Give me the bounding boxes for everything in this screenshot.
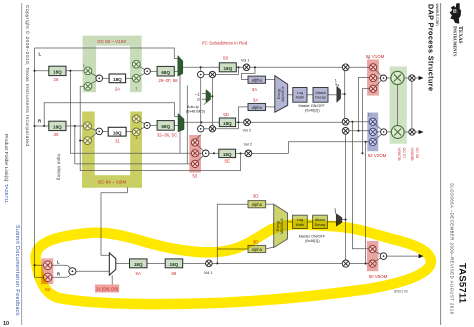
wire sub DRC tap vertical [217, 204, 248, 263]
wire sub feedback loop [80, 86, 240, 170]
block shade sub input mixer 53 [189, 135, 201, 173]
wire sub band line y141.8 [288, 142, 369, 154]
svg-text:Input Mixing: Input Mixing [56, 154, 61, 181]
wire xd to sum V2OM [375, 124, 381, 129]
wire sum4 to 68Q row2 [150, 124, 157, 126]
wire 18Q 5E to sub Vol2 [236, 152, 246, 154]
wire xD to sum2 [139, 73, 145, 76]
wire sub master mult out [349, 263, 369, 265]
node sub band tap [365, 141, 367, 143]
svg-text:21 (D8, D9): 21 (D8, D9) [96, 287, 119, 292]
wire -1/0 vertical [211, 78, 213, 126]
summer V2OM [381, 129, 387, 135]
svg-text:Vol 2: Vol 2 [244, 143, 252, 147]
wire x2d to sum4 [139, 127, 145, 130]
wire alpha2 to energy [266, 106, 275, 108]
block Log Math top [293, 88, 307, 103]
band GC 83 V1IM left bar [83, 46, 97, 92]
node mux1 out tap [200, 66, 202, 68]
svg-text:GC 58: GC 58 [415, 148, 419, 159]
multiplier V5OM bot [369, 260, 376, 267]
wire master mult ch1 to V1OM [349, 66, 370, 68]
wire interchannel to sub x top [196, 135, 200, 140]
multiplier sub master [342, 260, 349, 267]
wire xe to sum V2OM [376, 131, 380, 133]
multiplier xe V2OM [369, 128, 376, 135]
summer sub mixer [202, 150, 209, 157]
svg-text:MAX/MUX: MAX/MUX [281, 86, 285, 102]
svg-text:31: 31 [115, 138, 120, 143]
TI logo bug [450, 3, 461, 23]
wire Vol1 to master mult ch1 [250, 66, 343, 68]
output arrow ch2 [419, 130, 424, 134]
wire sub DRC gain vertical [345, 134, 347, 260]
energy max/mux sub [274, 204, 288, 247]
svg-text:1: 1 [136, 87, 138, 91]
block Log Math sub [293, 215, 308, 228]
wire alpha bot to energy 2 [266, 247, 274, 249]
wire sub x bot to sub sum [198, 156, 204, 161]
wire xC to sum2 [139, 66, 145, 69]
svg-text:18Q: 18Q [170, 262, 179, 267]
svg-text:58: 58 [223, 56, 228, 61]
wire sub mux out [342, 219, 346, 221]
svg-text:GC 57: GC 57 [402, 148, 406, 159]
svg-text:1: 1 [335, 79, 337, 83]
wire mux1 tap down [179, 74, 181, 153]
wire sub Vol1 out [212, 262, 342, 264]
wire R tap to sub mixer [75, 126, 192, 164]
node after 18Q 28 [69, 70, 71, 72]
wire log math 2 to attack decay 2 [307, 221, 312, 223]
node sub vol2 tap [239, 152, 241, 154]
multiplier xA V1IM [84, 67, 92, 75]
svg-text:B0521-06: B0521-06 [394, 290, 408, 294]
svg-text:68Q: 68Q [161, 70, 170, 75]
svg-text:alpha: alpha [252, 105, 263, 110]
band GC 83 V1IM header [83, 36, 142, 46]
svg-text:5A: 5A [136, 271, 141, 276]
svg-text:68Q: 68Q [161, 124, 170, 129]
wire mult ch1 aux to main [216, 67, 239, 74]
node after Vol1 [254, 66, 256, 68]
block shade 60 V5OM [367, 241, 378, 271]
wire 68Q to mux1 [174, 70, 178, 72]
svg-text:Vol 2: Vol 2 [243, 129, 251, 133]
wire xf to sum V2OM [375, 134, 381, 139]
wire bottom-left mux top feed [101, 187, 127, 255]
wire sub mux select hook [334, 210, 336, 213]
label GC 58 rotated [410, 148, 419, 162]
svg-text:29–2F, 58: 29–2F, 58 [158, 78, 178, 83]
svg-text:5D: 5D [223, 112, 229, 117]
multiplier sub drc gain [342, 127, 349, 134]
wire 18Q 59 to sub Vol1 [183, 262, 206, 264]
wire big mult 2 to out mult 2 [404, 131, 409, 133]
wire sub riser to xc [363, 89, 370, 154]
multiplier xf V2OM [369, 138, 376, 145]
wire alpha1 feed [242, 67, 256, 79]
wire xA to sum1 [91, 73, 97, 76]
wire 18Q 31 to x2d [126, 131, 133, 133]
band GC 84 V2IM bottom bar [82, 175, 142, 188]
svg-text:18Q: 18Q [53, 125, 62, 130]
block 18Q (5E) [219, 149, 236, 157]
node V2IM xb feed [79, 140, 81, 142]
wire ch1 interchannel vertical [200, 78, 202, 126]
big multiplier volume ch2 [391, 126, 404, 139]
svg-text:18Q: 18Q [53, 70, 62, 75]
svg-text:DAP Process Structure: DAP Process Structure [427, 4, 436, 91]
node sub line tap [361, 152, 363, 154]
block 68Q (32-36,5C) [157, 121, 174, 131]
svg-text:1: 1 [334, 208, 336, 212]
block 18Q (59) [165, 259, 183, 268]
svg-text:GC 83 – V1IM: GC 83 – V1IM [97, 39, 126, 44]
wire -1/0 mux out [211, 95, 213, 97]
multiplier x2d V2IM [132, 128, 140, 136]
filter alpha (3D) sub top [248, 201, 266, 208]
node R direct tap [43, 125, 45, 127]
node after Vol2 [249, 121, 251, 123]
svg-text:Math: Math [296, 96, 304, 100]
wire auto-ip hook [204, 103, 206, 105]
wire sub x top to sub sum [198, 145, 204, 150]
wire 18Q 58 to Vol1 [236, 66, 243, 68]
multiplier xa V1OM [370, 64, 377, 71]
wire mux2 out to 18Q 5D [184, 121, 219, 123]
resistor-block 18Q (30) [49, 121, 66, 130]
svg-text:3A: 3A [253, 97, 258, 102]
band GC 84 V2IM right bar [130, 112, 142, 188]
multiplier x2c V2IM [132, 115, 140, 123]
svg-text:30: 30 [54, 132, 59, 137]
node rail to sub x1 [33, 264, 35, 266]
mux master on/off ch12 [337, 86, 341, 102]
wire alpha top to energy 2 [266, 203, 274, 205]
big multiplier volume ch1 [391, 71, 404, 84]
svg-text:–1: –1 [195, 91, 200, 96]
svg-text:3D: 3D [253, 193, 259, 198]
svg-text:GC 84 – V2IM: GC 84 – V2IM [98, 180, 127, 185]
output arrow ch1 [419, 76, 424, 80]
node after 18Q 30 [74, 125, 76, 127]
TI logo wordmark TEXAS INSTRUMENTS [452, 26, 463, 57]
node after sub Vol1 [216, 262, 218, 264]
page right header rule [440, 3, 442, 325]
wire big mult to out mult ch1 [404, 77, 409, 79]
wire bottom-left mux out to 18Q 5A [116, 262, 130, 264]
block shade 52 V2OM [367, 113, 378, 152]
node mux2 out tap [200, 121, 202, 123]
wire sum V1OM to big mult [387, 77, 391, 79]
wire energy 2 to log math 2 [288, 221, 293, 223]
wire ch2 riser to bottom mixer [352, 122, 369, 249]
wire x2b to sum3 [90, 133, 97, 139]
wire -1 input [202, 93, 206, 95]
wire sub Vol2 out [252, 152, 289, 154]
wire sum3 to 18Q 31 [103, 130, 109, 132]
svg-text:Copyright © 2009–2010, Texas I: Copyright © 2009–2010, Texas Instruments… [24, 5, 31, 146]
svg-text:alpha: alpha [252, 78, 263, 83]
node sub out join [365, 263, 367, 265]
mux bottom-left sub select [109, 253, 116, 275]
svg-text:18Q: 18Q [134, 262, 143, 267]
node -1/0 out [211, 95, 213, 97]
multiplier sub mixer top [191, 139, 198, 146]
svg-text:18Q: 18Q [223, 152, 232, 157]
svg-text:Log: Log [297, 91, 303, 95]
filter alpha (3D) sub bottom [248, 245, 266, 252]
svg-text:1: 1 [368, 113, 370, 117]
wire xa to sum V1OM [376, 70, 382, 76]
svg-text:18Q: 18Q [223, 66, 232, 71]
wire master mux out [341, 71, 344, 119]
wire sum V2OM to big mult 2 [387, 131, 391, 133]
wire bottom output to arrow [387, 255, 419, 257]
wire log math to attack decay [307, 94, 313, 96]
block shade 51 V1OM [367, 59, 379, 95]
wire xB to sum1 [91, 80, 97, 84]
mux2 select channel 2 [178, 114, 184, 132]
wire 68Q row2 to mux2 [174, 124, 178, 126]
block 18Q (5D) [219, 118, 235, 127]
svg-text:5E: 5E [225, 159, 230, 164]
wire alpha2 feed [239, 107, 249, 122]
wire master mux1 select hook [336, 83, 339, 87]
filter alpha (3A) ch2 [248, 103, 266, 110]
wire sub x mid to sub sum [199, 152, 203, 154]
multiplier auto-ip ch1 [209, 71, 215, 77]
node sub sum out [213, 152, 215, 154]
multiplier xB V1IM [84, 82, 92, 90]
multiplier master ch2 [342, 118, 349, 125]
summer interchannel ch2 [198, 126, 204, 132]
multiplier auto-ip ch2 [209, 126, 215, 132]
svg-text:ti: ti [451, 9, 458, 13]
page left footer rule [21, 3, 23, 325]
wire ch1 sum tap down [200, 67, 202, 71]
wire out mult 2 to arrow ch2 [415, 131, 418, 133]
svg-text:(0x46[2]): (0x46[2]) [305, 109, 320, 113]
mux1 select channel 1 [178, 56, 183, 77]
multiplier sub mixer bot [191, 160, 198, 167]
svg-text:1: 1 [136, 136, 138, 140]
wire attack decay 2 to sub mux [327, 221, 336, 223]
wire sub x out bot to sum [375, 258, 381, 261]
wire mux1 out to 18Q 58 [183, 66, 220, 68]
multiplier xc V1OM [370, 85, 377, 92]
block 68Q (29-2F,58) [157, 66, 174, 76]
filter alpha (3A) ch1 [248, 76, 266, 83]
wire 0 input [202, 98, 206, 100]
wire mult ch2 aux to main [216, 122, 239, 129]
wire L top line to mux1 [35, 48, 178, 59]
energy max/mux top [275, 76, 288, 113]
svg-text:32–36, 5C: 32–36, 5C [157, 132, 177, 137]
multiplier 61 R [44, 273, 52, 281]
wire bottom-left mux select [111, 275, 113, 284]
svg-text:TAS5711: TAS5711 [457, 263, 468, 304]
svg-text:Master ON/OFF: Master ON/OFF [299, 234, 326, 238]
multiplier 61 L [44, 261, 52, 269]
node aux join ch1 [237, 66, 239, 68]
summer sum4 V2IM [144, 122, 150, 128]
wire R direct bypass [44, 103, 178, 126]
svg-text:Decay: Decay [315, 96, 326, 100]
svg-text:18Q: 18Q [223, 121, 232, 126]
wire sub sum to 18Q 5E [209, 152, 219, 154]
resistor-block 18Q (28) [49, 66, 66, 75]
wire sub L pill top [52, 265, 70, 269]
node L tap on rail [33, 70, 35, 72]
summer sum1 V1IM [96, 75, 103, 82]
wire 18Q 5A to 18Q 59 [147, 262, 165, 264]
summer V1OM [380, 75, 386, 81]
svg-text:L: L [57, 259, 60, 264]
svg-text:3A: 3A [252, 87, 257, 92]
output arrow sub [419, 254, 424, 258]
wire sum2 to 68Q [150, 70, 157, 72]
summer interchannel ch1 [198, 71, 204, 77]
wire sub R pill bottom [52, 274, 70, 277]
wire Vol2 to master mult ch2 [250, 121, 342, 123]
multiplier xD V1IM [132, 74, 140, 82]
label GC 57 rotated [397, 148, 406, 162]
wire energy to log math [288, 94, 293, 96]
mux master on/off sub [336, 214, 342, 227]
node ch2 riser tap [351, 121, 353, 123]
svg-text:Submit Documentation Feedback: Submit Documentation Feedback [14, 225, 20, 316]
node xe line tap [357, 130, 359, 132]
svg-text:Vol 1: Vol 1 [241, 59, 249, 63]
multiplier V5OM top [369, 245, 376, 252]
wire alpha1 to energy [266, 79, 275, 81]
svg-text:59: 59 [171, 271, 176, 276]
mux -1/0 auto-ip [206, 90, 211, 104]
yellow highlighter annotation [36, 224, 431, 304]
wire input rail to sub x1 [35, 264, 44, 266]
wire R row into 18Q 30 [35, 125, 85, 127]
wire big mult column [397, 85, 399, 126]
block Attack Decay top [313, 88, 328, 103]
block shade 61 input [41, 259, 53, 285]
wire out mult column [411, 81, 413, 129]
wire out mult to arrow ch1 [415, 77, 419, 79]
multiplier out ch1 [409, 75, 415, 81]
summer sum2 V1IM [144, 68, 150, 74]
multiplier sub Vol1 [206, 260, 213, 267]
svg-text:28: 28 [54, 77, 59, 82]
band GC 84 V2IM left bar [82, 112, 95, 188]
svg-text:60 V5OM: 60 V5OM [369, 274, 388, 279]
svg-text:alpha: alpha [252, 247, 263, 252]
svg-text:52 V2OM: 52 V2OM [368, 153, 387, 158]
svg-text:1: 1 [368, 56, 370, 60]
wire attack decay to master mux [328, 94, 337, 96]
multiplier Vol2 [244, 119, 251, 126]
multiplier out ch2 [409, 129, 415, 135]
wire L tap to sub mixer [70, 71, 191, 154]
svg-text:V0807B: V0807B [397, 148, 401, 162]
wire ch2 riser to xb [359, 78, 370, 131]
svg-text:Auto-ip: Auto-ip [187, 105, 199, 109]
multiplier sub mixer mid [191, 150, 198, 157]
label 21 (D8,D9) box [95, 285, 119, 293]
svg-text:18Q: 18Q [113, 131, 122, 136]
wire mux2 tap down [186, 86, 188, 164]
svg-text:V0808B: V0808B [410, 148, 414, 162]
block Attack Decay sub [313, 215, 328, 228]
node master mux out [344, 93, 346, 95]
block 18Q (58) [219, 63, 236, 72]
wire sub gain mult to V2OM xe [349, 130, 369, 132]
svg-text:10: 10 [3, 321, 9, 327]
multiplier master ch1 [342, 64, 349, 71]
svg-text:(0x48 Bit 5): (0x48 Bit 5) [186, 109, 205, 113]
multiplier xb V1OM [370, 75, 377, 82]
node sub mux out [345, 219, 347, 221]
block 18Q (31) [108, 127, 126, 136]
summer sum3 V2IM [96, 128, 103, 135]
band GC 83 V1IM right bar [130, 46, 142, 92]
wire L row into 18Q 28 [35, 70, 85, 72]
svg-text:Master ON/OFF: Master ON/OFF [299, 104, 326, 108]
multiplier x2b V2IM [84, 137, 92, 145]
multiplier xd V2OM [369, 118, 376, 125]
multiplier sub Vol2 [245, 150, 252, 157]
svg-text:1: 1 [83, 64, 85, 68]
svg-text:Attack: Attack [315, 91, 326, 95]
svg-text:L: L [39, 52, 42, 57]
wire xc to sum V1OM [376, 81, 382, 87]
wire left input rail [34, 48, 36, 277]
wire xb to sum V1OM [377, 77, 381, 79]
svg-text:Product Folder Link(s): TAS571: Product Folder Link(s): TAS5711 [3, 134, 9, 203]
wire 18Q 2A to xD [126, 77, 133, 79]
summer V5OM [380, 253, 387, 260]
svg-text:SLOS666A –DECEMBER 2009–REVISE: SLOS666A –DECEMBER 2009–REVISED AUGUST 2… [450, 183, 455, 315]
wire sub pill sum to mux [76, 270, 109, 272]
output volume green band [390, 66, 407, 143]
svg-text:Vol 1: Vol 1 [204, 271, 212, 275]
wire x2c to sum4 [139, 121, 145, 124]
multiplier x2a V2IM [84, 122, 92, 130]
node R tap on rail [33, 125, 35, 127]
svg-text:I²C Subaddress in Red: I²C Subaddress in Red [202, 41, 248, 46]
multiplier xC V1IM [132, 60, 140, 68]
wire 18Q 5D to Vol2 [236, 121, 244, 123]
svg-text:(0x46[1]): (0x46[1]) [305, 239, 320, 243]
wire sub x out top to sum [375, 252, 381, 255]
wire sum1 to 18Q 2A [102, 77, 109, 79]
svg-text:alpha: alpha [252, 202, 263, 207]
svg-text:18Q: 18Q [113, 77, 122, 82]
wire sub feed riser to bottom [365, 142, 367, 264]
multiplier Vol1 [243, 64, 250, 71]
svg-text:2A: 2A [115, 86, 120, 91]
summer sub input [69, 268, 76, 275]
svg-text:R: R [57, 272, 60, 277]
wire sum to mult ch2 aux [204, 128, 209, 130]
block 18Q (5A) [130, 259, 148, 268]
svg-text:53: 53 [192, 174, 197, 179]
wire input rail to sub x2 [35, 276, 44, 278]
wire x2a to sum3 [90, 128, 97, 130]
node aux join ch2 [237, 121, 239, 123]
wire master mult ch2 to V2OM [349, 121, 370, 123]
block 18Q (2A) [109, 74, 126, 83]
